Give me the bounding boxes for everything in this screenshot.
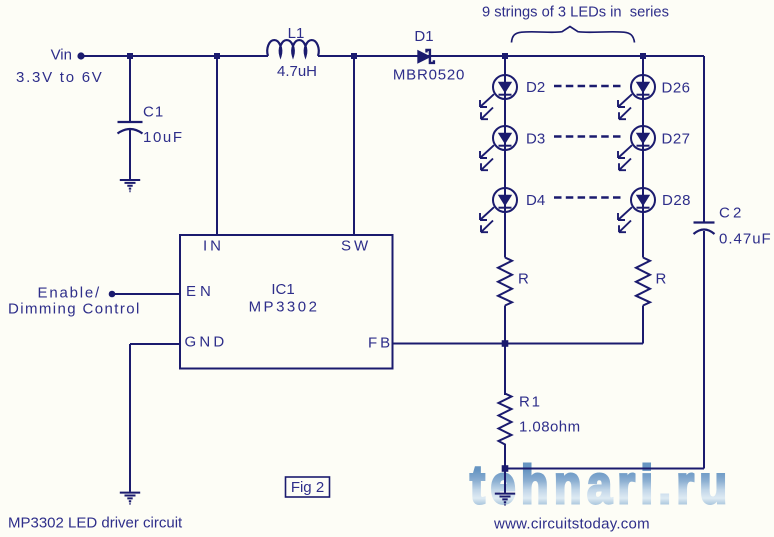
svg-text:R: R <box>518 271 529 288</box>
svg-text:tehnari.ru: tehnari.ru <box>470 454 732 515</box>
svg-text:D4: D4 <box>526 192 545 209</box>
svg-text:Fig 2: Fig 2 <box>291 479 324 496</box>
svg-text:C1: C1 <box>143 104 164 121</box>
svg-text:10uF: 10uF <box>143 129 184 146</box>
svg-text:0.47uF: 0.47uF <box>719 231 772 248</box>
svg-text:SW: SW <box>341 238 371 255</box>
svg-text:C2: C2 <box>719 205 745 222</box>
svg-text:www.circuitstoday.com: www.circuitstoday.com <box>493 516 650 533</box>
svg-text:9 strings of 3 LEDs in series: 9 strings of 3 LEDs in series <box>482 5 669 21</box>
svg-text:IC1: IC1 <box>271 281 294 298</box>
svg-text:FB: FB <box>368 335 393 352</box>
svg-text:D27: D27 <box>662 131 691 148</box>
svg-text:R: R <box>656 271 667 288</box>
svg-text:D26: D26 <box>662 80 691 97</box>
svg-text:L1: L1 <box>288 25 305 42</box>
svg-text:D3: D3 <box>526 131 545 148</box>
svg-text:Enable/: Enable/ <box>38 285 101 302</box>
svg-text:EN: EN <box>186 283 215 300</box>
svg-text:R1: R1 <box>519 394 542 411</box>
svg-text:Vin: Vin <box>51 47 72 64</box>
svg-text:MBR0520: MBR0520 <box>393 67 465 84</box>
svg-text:D28: D28 <box>662 192 691 209</box>
svg-text:Dimming Control: Dimming Control <box>8 301 141 318</box>
svg-text:GND: GND <box>185 334 228 351</box>
svg-text:MP3302 LED driver circuit: MP3302 LED driver circuit <box>8 515 183 532</box>
svg-text:1.08ohm: 1.08ohm <box>519 419 581 436</box>
svg-text:D1: D1 <box>414 28 433 45</box>
svg-text:D2: D2 <box>526 79 545 96</box>
svg-text:IN: IN <box>203 238 224 255</box>
svg-text:3.3V to 6V: 3.3V to 6V <box>16 69 104 86</box>
svg-text:MP3302: MP3302 <box>249 299 320 316</box>
svg-text:4.7uH: 4.7uH <box>277 63 317 80</box>
